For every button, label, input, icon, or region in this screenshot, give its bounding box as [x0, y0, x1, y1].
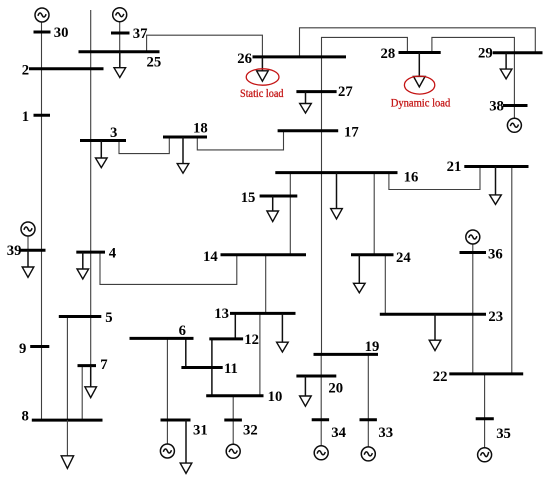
- bus 16: [275, 171, 397, 174]
- bus 22: [449, 372, 523, 375]
- svg-text:5: 5: [105, 310, 112, 326]
- wire 6-31 to gen31: [166, 338, 168, 444]
- svg-text:22: 22: [433, 369, 448, 385]
- wire 10-32 to gen32: [232, 396, 234, 445]
- svg-text:34: 34: [331, 425, 346, 441]
- load on bus 28 (dynamic load): [414, 53, 426, 87]
- wire chain 19-20-34 to gen34: [320, 354, 322, 446]
- wire 13-10: [259, 313, 261, 395]
- load on bus 27: [300, 92, 312, 113]
- load on bus 29: [500, 53, 512, 79]
- wire gen39 to bus 39: [27, 236, 29, 251]
- load on bus 8: [61, 420, 73, 468]
- wire 4-14: [100, 252, 237, 284]
- load on bus 20: [300, 376, 312, 406]
- wire gen37 to bus 25: [119, 21, 121, 51]
- wire 6-11: [185, 338, 187, 367]
- bus 29: [493, 51, 543, 54]
- svg-text:1: 1: [22, 109, 29, 125]
- svg-text:33: 33: [378, 425, 393, 441]
- load on bus 25: [114, 52, 126, 78]
- bus 32: [224, 419, 242, 422]
- bus 11: [181, 366, 222, 369]
- wire 16-21: [389, 167, 480, 190]
- generator G39: [21, 222, 35, 236]
- svg-text:4: 4: [109, 246, 117, 262]
- bus 2: [29, 67, 104, 70]
- generator G34: [314, 446, 328, 460]
- bus 31: [161, 419, 191, 422]
- load on bus 21: [490, 167, 502, 205]
- bus 3: [80, 139, 126, 142]
- svg-text:37: 37: [133, 26, 148, 42]
- wire 26-28: [322, 37, 408, 57]
- bus 30: [34, 31, 51, 34]
- svg-text:38: 38: [489, 98, 504, 114]
- wire chain 30-2-1-39-9-8: [41, 22, 43, 420]
- bus 26: [253, 55, 347, 58]
- svg-text:15: 15: [241, 190, 256, 206]
- svg-text:28: 28: [381, 46, 396, 62]
- svg-text:24: 24: [396, 250, 411, 266]
- bus 25: [79, 50, 160, 53]
- bus 14: [221, 253, 307, 256]
- bus 13: [230, 312, 296, 315]
- bus 9: [30, 345, 49, 348]
- wire chain 12-11-10: [211, 339, 213, 396]
- annotation ellipse static load: [246, 69, 279, 85]
- svg-text:10: 10: [268, 389, 283, 405]
- wire 22-35 to gen35: [484, 374, 486, 448]
- svg-text:11: 11: [224, 361, 238, 377]
- bus 24: [351, 253, 394, 256]
- generator G31: [160, 444, 174, 458]
- wire 21-22: [511, 167, 513, 374]
- svg-text:Dynamic load: Dynamic load: [391, 96, 451, 110]
- svg-text:39: 39: [7, 243, 22, 259]
- wire 3-18: [119, 137, 169, 154]
- bus 20: [296, 375, 336, 378]
- svg-text:13: 13: [214, 306, 229, 322]
- load on bus 4: [77, 252, 89, 279]
- svg-text:31: 31: [193, 422, 208, 438]
- load on bus 39: [22, 250, 34, 277]
- bus 8: [32, 419, 103, 422]
- bus 17: [278, 129, 339, 132]
- generator G32: [226, 444, 240, 458]
- bus 23: [380, 313, 486, 316]
- svg-text:2: 2: [22, 62, 29, 78]
- svg-text:20: 20: [328, 381, 343, 397]
- bus 15: [260, 195, 298, 198]
- annotation ellipse dynamic load: [404, 76, 434, 94]
- load on bus 13: [277, 313, 289, 352]
- svg-text:9: 9: [19, 341, 26, 357]
- svg-text:23: 23: [488, 309, 503, 325]
- wire 28-29: [432, 37, 515, 52]
- wire 19-33 to gen33: [367, 354, 369, 447]
- load on bus 7: [85, 366, 97, 398]
- bus 5: [59, 315, 102, 318]
- wire chain gen36-36-23-22: [472, 244, 474, 374]
- bus 7: [78, 364, 97, 367]
- wire 25-26: [147, 35, 263, 57]
- wire 18-17: [197, 131, 283, 150]
- wire chain 26-27-17-16-19: [321, 57, 323, 355]
- svg-text:12: 12: [244, 332, 259, 348]
- svg-text:35: 35: [496, 426, 511, 442]
- bus 21: [464, 165, 528, 168]
- svg-text:Static load: Static load: [240, 86, 284, 100]
- generator G36: [466, 230, 480, 244]
- bus 19: [314, 353, 379, 356]
- svg-text:18: 18: [193, 120, 208, 136]
- svg-text:25: 25: [147, 54, 162, 70]
- svg-text:8: 8: [22, 408, 29, 424]
- bus 33: [360, 418, 377, 421]
- bus 18: [163, 136, 207, 139]
- generator G37: [113, 8, 127, 22]
- svg-text:32: 32: [243, 422, 258, 438]
- wire 16-24: [373, 173, 375, 255]
- bus 34: [312, 418, 329, 421]
- wire 24-23: [384, 255, 386, 315]
- generator G30: [35, 8, 49, 22]
- svg-text:30: 30: [54, 25, 69, 41]
- wire 26-29: [300, 28, 536, 57]
- load on bus 18: [177, 137, 189, 173]
- svg-text:17: 17: [344, 124, 359, 140]
- svg-text:3: 3: [110, 125, 117, 141]
- load on bus 26 (static load): [257, 57, 269, 81]
- bus 27: [296, 90, 336, 93]
- bus 4: [76, 251, 105, 254]
- load on bus 23: [429, 314, 441, 350]
- svg-text:19: 19: [365, 339, 380, 355]
- generator G35: [478, 448, 492, 462]
- bus 12: [209, 337, 243, 340]
- bus 10: [206, 394, 263, 397]
- svg-text:7: 7: [100, 357, 107, 373]
- generator G38: [507, 118, 521, 132]
- wire 7-8: [81, 366, 83, 421]
- wire 29-38 to gen38: [513, 53, 515, 119]
- svg-text:29: 29: [478, 46, 493, 62]
- bus 36: [460, 251, 487, 254]
- wire chain 5-8: [66, 317, 68, 421]
- wire chain 25-2-3-4-5-7: [90, 10, 92, 366]
- bus 6: [130, 337, 194, 340]
- load on bus 24: [354, 255, 366, 293]
- load on bus 15: [267, 196, 279, 222]
- svg-text:14: 14: [203, 249, 218, 265]
- bus 39: [19, 249, 46, 252]
- bus 37: [111, 32, 130, 35]
- bus 28: [399, 51, 441, 54]
- wire chain 16-15-14: [289, 173, 291, 255]
- svg-text:6: 6: [179, 323, 186, 339]
- bus 35: [476, 417, 494, 420]
- load on bus 16: [331, 173, 343, 219]
- svg-text:27: 27: [338, 84, 353, 100]
- bus 38: [503, 104, 528, 107]
- bus 1: [34, 114, 51, 117]
- svg-text:26: 26: [237, 51, 252, 67]
- svg-text:36: 36: [488, 246, 503, 262]
- load on bus 31: [180, 420, 192, 473]
- load on bus 3: [96, 141, 108, 168]
- wire 14-13: [265, 255, 267, 314]
- svg-text:21: 21: [447, 159, 462, 175]
- wire 13-12: [234, 313, 236, 339]
- generator G33: [361, 447, 375, 461]
- svg-text:16: 16: [404, 170, 419, 186]
